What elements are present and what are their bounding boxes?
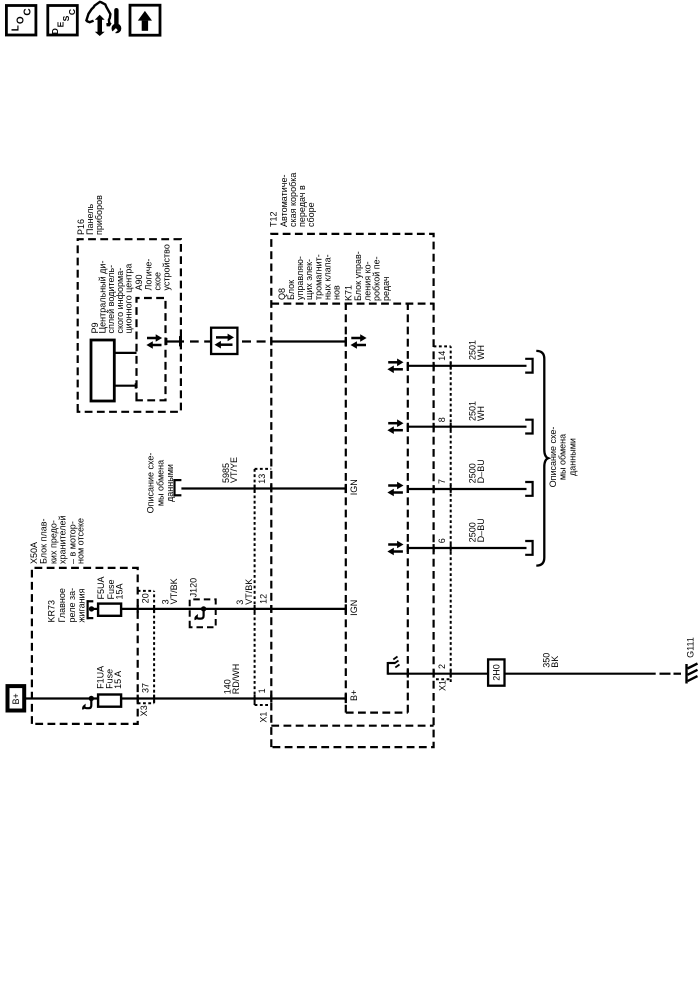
label A90 [134, 244, 171, 290]
svg-text:F5UA: F5UA [96, 576, 106, 599]
svg-text:RD/WH: RD/WH [231, 664, 241, 695]
label description right [548, 427, 577, 488]
junction dot and clip at F1UA [83, 696, 94, 710]
wire 2500 D-BU pin 7 [387, 482, 526, 497]
svg-text:D–BU: D–BU [476, 459, 486, 483]
bracket for data schematic description left [173, 479, 181, 496]
fuse block X50A (dashed box) [32, 568, 138, 724]
svg-text:хранителей: хранителей [57, 515, 67, 564]
wire B+ 140 RD/WH [26, 697, 346, 699]
svg-text:L: L [10, 25, 21, 31]
svg-text:жигания: жигания [77, 588, 87, 622]
svg-text:WH: WH [476, 345, 486, 360]
display P9 (solid box) [91, 340, 114, 401]
relay KR73 contact [87, 600, 99, 619]
serial data link connector box [211, 328, 237, 354]
svg-text:X1: X1 [438, 680, 448, 691]
label 2500 D-BU pin 7 [468, 459, 486, 483]
icon up-arrow box [130, 5, 160, 35]
svg-text:IGN: IGN [349, 600, 359, 616]
svg-text:D: D [50, 28, 60, 34]
K71 box left edge [346, 711, 408, 713]
coil terminal cup pin 7 [525, 482, 532, 496]
svg-text:сборе: сборе [306, 202, 316, 227]
svg-text:13: 13 [257, 474, 267, 484]
crossing ticks X3 on wires [153, 605, 155, 702]
label 5985 VT/YE [221, 457, 239, 483]
connector X1 left fine dashed line [255, 469, 272, 705]
terminal at A90 output [165, 338, 167, 345]
wire 2500 D-BU pin 6 [387, 541, 526, 556]
svg-text:2: 2 [437, 664, 447, 669]
svg-text:1: 1 [257, 688, 267, 693]
svg-text:C: C [23, 8, 34, 15]
svg-text:15 A: 15 A [113, 671, 123, 689]
svg-text:2H0: 2H0 [492, 664, 502, 681]
label P16 [76, 195, 104, 235]
T12 inner partition line left strip [271, 725, 433, 727]
wire P9 to A90 stub left with terminal [114, 383, 137, 388]
label KR73 [46, 588, 86, 623]
svg-text:X3: X3 [139, 705, 149, 716]
component box P16 instrument panel (dashed) [78, 239, 181, 412]
svg-text:ционного центра: ционного центра [124, 264, 134, 334]
label 3 VT/BK second [235, 579, 254, 605]
svg-text:нов: нов [332, 285, 342, 300]
coil terminal cup pin 14 [525, 359, 532, 373]
label Q8 [277, 254, 342, 300]
brace description of data exchange [536, 351, 548, 566]
svg-text:D–BU: D–BU [476, 518, 486, 542]
svg-text:Описание схе-: Описание схе- [548, 427, 558, 488]
svg-text:S: S [61, 15, 71, 21]
T12 inner partition line label strip [271, 302, 433, 304]
svg-text:T12: T12 [269, 211, 279, 227]
crossing tick P16 edge on serial wire [180, 336, 182, 346]
logic device A90 (dashed box) [137, 298, 166, 400]
label T12 [269, 173, 316, 227]
Q8 K71 divider top [345, 304, 347, 713]
svg-text:Описание схе-: Описание схе- [146, 453, 156, 514]
label description left [146, 453, 175, 514]
svg-text:C: C [67, 9, 77, 15]
icon vehicle data link symbol (car outline, double arrow, wrench) [86, 2, 121, 36]
svg-text:данными: данными [165, 464, 175, 502]
label 2501 WH pin 14 [468, 340, 486, 360]
svg-text:устройство: устройство [162, 244, 172, 290]
svg-text:VT/YE: VT/YE [229, 457, 239, 483]
svg-text:Главное: Главное [57, 588, 67, 622]
svg-text:B+: B+ [11, 693, 21, 704]
fuse F5UA [98, 604, 121, 616]
svg-text:12: 12 [258, 594, 268, 604]
fuse F1UA [98, 695, 121, 707]
label F1UA [96, 666, 124, 689]
label 350 BK [542, 653, 561, 668]
svg-text:мы обмена: мы обмена [558, 434, 568, 480]
svg-text:WH: WH [476, 406, 486, 421]
component box T12 automatic transmission assembly (dashed) [271, 234, 433, 747]
svg-text:Блок плав-: Блок плав- [39, 518, 49, 564]
crossing ticks X1 left on wires [254, 485, 256, 703]
coil terminal cup pin 8 [525, 420, 532, 434]
svg-text:B+: B+ [349, 690, 359, 701]
crossing ticks K71 bottom and T12 bottom on wires [407, 362, 435, 678]
ground symbol in K71 [388, 657, 400, 675]
label 140 RD/WH [222, 664, 241, 695]
battery terminal B+ box [8, 686, 25, 710]
serial arrows in K71 (from A90 line) [351, 334, 367, 349]
svg-text:IGN: IGN [349, 479, 359, 495]
svg-text:X1: X1 [258, 712, 268, 723]
icon LOC box [6, 6, 36, 36]
label F5UA [96, 576, 124, 599]
crossing ticks X50A bottom edge on wires [137, 605, 139, 702]
label P9 [90, 261, 134, 334]
svg-text:KR73: KR73 [46, 600, 56, 623]
svg-text:данными: данными [567, 438, 577, 476]
wire 2501 WH pin 8 [387, 419, 526, 434]
wire IGN 3 VT/BK [121, 608, 346, 610]
svg-text:8: 8 [437, 417, 447, 422]
wire 5985 VT/YE [181, 487, 345, 489]
svg-text:редач: редач [381, 276, 391, 301]
svg-text:мы обмена: мы обмена [155, 460, 165, 506]
svg-text:14: 14 [437, 351, 447, 361]
crossing ticks X1 right on wires [450, 362, 452, 678]
label X50A [29, 515, 85, 564]
Q8 K71 divider bottom [407, 304, 409, 713]
svg-text:7: 7 [437, 479, 447, 484]
junction J120 (dashed box with dot) [190, 599, 216, 627]
label 3 VT/BK first [160, 578, 179, 604]
coil terminal cup pin 6 [525, 541, 532, 555]
svg-text:VT/BK: VT/BK [244, 579, 254, 605]
svg-text:15A: 15A [115, 583, 125, 599]
label K71 [344, 251, 392, 301]
svg-text:37: 37 [140, 683, 150, 693]
svg-text:G111: G111 [686, 637, 696, 658]
ground G111 symbol [685, 664, 697, 684]
connector X3 fine dashed line [138, 591, 154, 703]
svg-text:20: 20 [140, 593, 150, 603]
wire serial data A90 to data link box [166, 336, 212, 346]
wire 350 BK ground [388, 673, 681, 675]
label 2501 WH pin 8 [468, 401, 486, 421]
svg-text:O: O [16, 16, 27, 24]
splice 2H0 box [488, 659, 504, 685]
crossing ticks T12 top edge on wires [270, 338, 272, 703]
svg-text:J120: J120 [188, 578, 198, 598]
svg-text:ном отсеке: ном отсеке [76, 518, 86, 564]
wire P9 to A90 stub right [114, 352, 136, 354]
wire serial data into T12 [242, 340, 346, 342]
terminal ticks at K71 top edge wire ends [345, 337, 347, 703]
svg-text:VT/BK: VT/BK [169, 578, 179, 604]
svg-text:BK: BK [550, 656, 560, 668]
wire 2501 WH pin 14 [387, 359, 526, 374]
serial data arrows in A90 [146, 334, 162, 349]
svg-text:6: 6 [437, 538, 447, 543]
svg-text:приборов: приборов [94, 195, 104, 235]
icon DESC box [48, 6, 78, 36]
label 2500 D-BU pin 6 [468, 518, 486, 542]
connector X1 right fine dashed line [434, 346, 451, 682]
